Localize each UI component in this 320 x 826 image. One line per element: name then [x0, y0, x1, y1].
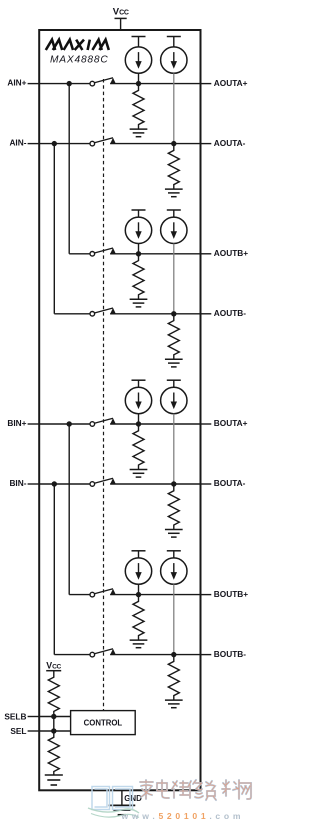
node BOUTB- — [171, 652, 176, 657]
svg-text:BIN+: BIN+ — [7, 418, 26, 428]
ground under R1 — [130, 129, 148, 137]
wire BOUTA+ to output — [110, 423, 211, 425]
CONTROL block U1 — [71, 711, 136, 735]
wire current source I2 output crossing — [173, 73, 175, 143]
watermark book logo — [88, 787, 139, 818]
svg-text:AIN+: AIN+ — [7, 78, 26, 88]
Vcc rail tap right section 2 — [167, 210, 181, 217]
switch SW2 — [90, 138, 116, 146]
ground GND pin — [109, 790, 136, 815]
pin label BIN+ — [7, 418, 26, 428]
current source I2 — [161, 47, 187, 73]
wire BOUTB+ line — [69, 424, 90, 595]
node AOUTB- — [171, 311, 176, 316]
ground under R4 — [165, 359, 183, 367]
ground under R8 — [165, 700, 183, 708]
resistor R2 — [168, 144, 179, 190]
node AOUTB+ — [136, 251, 141, 256]
current source I3 — [125, 217, 151, 243]
watermark url www.520101.com — [121, 811, 245, 821]
node BOUTA- — [171, 481, 176, 486]
power Vcc top pin — [113, 6, 129, 30]
IC body box MAX4888C — [39, 30, 200, 790]
pin label AOUTA+ — [214, 78, 248, 88]
wire BOUTA- line — [28, 483, 90, 485]
ground under R5 — [130, 470, 148, 478]
power Vcc pull-up — [46, 660, 61, 670]
node BIN- junction — [52, 481, 57, 486]
node SEL — [51, 728, 56, 733]
svg-text:CONTROL: CONTROL — [84, 719, 123, 728]
ground under R2 — [165, 189, 183, 197]
watermark text warm core — [140, 780, 251, 800]
wire BOUTB+ to output — [110, 594, 211, 596]
switch SW5 — [90, 418, 116, 426]
resistor R4 — [168, 314, 179, 360]
pin label BOUTB+ — [214, 589, 248, 599]
svg-text:AOUTA+: AOUTA+ — [214, 78, 248, 88]
wire current source I8 output crossing — [173, 584, 175, 654]
wire AOUTB+ to output — [110, 253, 211, 255]
wire control select dashed line — [103, 79, 105, 711]
Vcc rail tap left section 3 — [132, 380, 146, 387]
ground under R7 — [130, 640, 148, 648]
node AOUTA- — [171, 141, 176, 146]
wire AOUTB+ line — [69, 84, 90, 254]
resistor R5 — [133, 424, 144, 470]
svg-text:www.520101.com: www.520101.com — [121, 811, 245, 821]
wire AOUTB- to output — [110, 313, 211, 315]
node BIN+ junction — [67, 421, 72, 426]
Vcc rail tap left section 1 — [132, 37, 146, 47]
wire BOUTA- to output — [110, 483, 211, 485]
svg-text:MAX4888C: MAX4888C — [50, 54, 109, 65]
current source I5 — [125, 387, 151, 413]
ground under R3 — [130, 299, 148, 307]
pin label AIN- — [9, 138, 26, 148]
Vcc rail tap left section 2 — [132, 210, 146, 217]
switch SW4 — [90, 308, 116, 316]
wire AOUTB- line — [54, 144, 89, 314]
pin label SELB — [4, 711, 26, 721]
pin label AIN+ — [7, 78, 26, 88]
svg-text:BOUTB-: BOUTB- — [214, 649, 246, 659]
pin label BOUTA- — [214, 478, 246, 488]
node AIN+ junction — [67, 81, 72, 86]
switch SW6 — [90, 478, 116, 486]
switch SW8 — [90, 649, 116, 657]
wire current source I1 output — [138, 73, 140, 83]
wire SEL — [28, 730, 71, 732]
wire AOUTA+ to output — [110, 83, 211, 85]
resistor R10 pull-down — [48, 731, 59, 775]
resistor R1 — [133, 84, 144, 129]
wire current source I4 output crossing — [173, 244, 175, 314]
resistor R6 — [168, 484, 179, 530]
svg-text:BOUTA-: BOUTA- — [214, 478, 246, 488]
Vcc rail tap right section 3 — [167, 380, 181, 387]
svg-text:AOUTB+: AOUTB+ — [214, 248, 248, 258]
resistor R7 — [133, 595, 144, 641]
wire BOUTA+ line — [28, 423, 90, 425]
wire BOUTB- to output — [110, 654, 211, 656]
svg-text:BOUTA+: BOUTA+ — [214, 418, 248, 428]
wire SELB-SEL divider — [53, 717, 55, 732]
current source I1 — [125, 47, 151, 73]
wire AOUTA- line — [28, 143, 90, 145]
wire current source I7 output — [138, 584, 140, 594]
switch SW7 — [90, 589, 116, 597]
node BOUTA+ — [136, 421, 141, 426]
wire current source I6 output crossing — [173, 414, 175, 484]
Vcc rail tap right section 1 — [167, 37, 181, 47]
wire SELB — [28, 716, 71, 718]
pin label BOUTB- — [214, 649, 246, 659]
node AIN- junction — [52, 141, 57, 146]
node BOUTB+ — [136, 592, 141, 597]
svg-text:AOUTB-: AOUTB- — [214, 308, 246, 318]
ground under R6 — [165, 530, 183, 538]
pin label AOUTB- — [214, 308, 246, 318]
pin label SEL — [10, 726, 26, 736]
pin label AOUTA- — [214, 138, 246, 148]
part number MAX4888C — [50, 54, 109, 65]
ground under R10 — [45, 775, 63, 785]
switch SW1 — [90, 78, 116, 86]
wire current source I3 output — [138, 244, 140, 254]
resistor R3 — [133, 254, 144, 300]
resistor R9 pull-up — [48, 671, 59, 717]
current source I7 — [125, 558, 151, 584]
pin label AOUTB+ — [214, 248, 248, 258]
current source I4 — [161, 217, 187, 243]
MAXIM logo — [46, 40, 109, 50]
node SELB — [51, 714, 56, 719]
resistor R8 — [168, 655, 179, 701]
wire AOUTA+ line — [28, 83, 90, 85]
wire AOUTA- to output — [110, 143, 211, 145]
pin label GND — [124, 794, 142, 803]
current source I6 — [161, 387, 187, 413]
node AOUTA+ — [136, 81, 141, 86]
svg-text:SEL: SEL — [10, 726, 26, 736]
wire BOUTB- line — [54, 484, 89, 655]
svg-text:BOUTB+: BOUTB+ — [214, 589, 248, 599]
svg-text:AOUTA-: AOUTA- — [214, 138, 246, 148]
pin label BIN- — [9, 478, 26, 488]
Vcc rail tap right section 4 — [167, 551, 181, 558]
svg-text:AIN-: AIN- — [9, 138, 26, 148]
pin label BOUTA+ — [214, 418, 248, 428]
Vcc rail tap left section 4 — [132, 551, 146, 558]
wire current source I5 output — [138, 414, 140, 424]
switch SW3 — [90, 248, 116, 256]
watermark text jiadianweixiuziliaowang — [140, 780, 251, 800]
current source I8 — [161, 558, 187, 584]
svg-text:BIN-: BIN- — [9, 478, 26, 488]
svg-text:SELB: SELB — [4, 711, 26, 721]
